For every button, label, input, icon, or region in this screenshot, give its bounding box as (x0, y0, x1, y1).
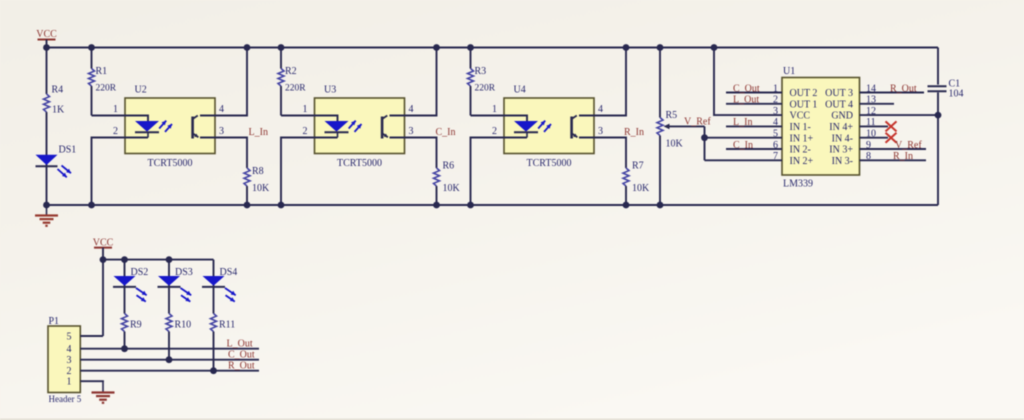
svg-text:1: 1 (113, 104, 118, 115)
svg-text:1: 1 (773, 83, 778, 94)
svg-text:1: 1 (492, 104, 497, 115)
svg-text:10K: 10K (443, 183, 461, 194)
svg-text:IN 2-: IN 2- (790, 145, 811, 156)
svg-text:DS3: DS3 (175, 267, 193, 278)
svg-text:R6: R6 (443, 160, 455, 171)
svg-text:IN 1+: IN 1+ (790, 133, 814, 144)
svg-text:OUT 3: OUT 3 (825, 88, 853, 99)
svg-text:8: 8 (866, 151, 871, 162)
svg-text:R10: R10 (175, 320, 192, 331)
svg-text:DS4: DS4 (220, 267, 238, 278)
svg-text:2: 2 (492, 126, 497, 137)
svg-text:OUT 2: OUT 2 (790, 88, 818, 99)
svg-text:LM339: LM339 (783, 179, 813, 190)
svg-text:R_Out: R_Out (228, 360, 255, 371)
svg-text:2: 2 (773, 95, 778, 106)
svg-text:IN 3-: IN 3- (832, 156, 853, 167)
svg-text:IN 3+: IN 3+ (829, 145, 853, 156)
svg-text:R3: R3 (475, 66, 487, 77)
svg-text:4: 4 (219, 104, 224, 115)
svg-text:R_Out: R_Out (890, 83, 917, 94)
svg-text:R11: R11 (219, 320, 235, 331)
svg-text:R2: R2 (285, 66, 297, 77)
svg-text:R8: R8 (252, 166, 264, 177)
svg-text:4: 4 (409, 104, 414, 115)
svg-text:TCRT5000: TCRT5000 (148, 158, 193, 169)
svg-text:10: 10 (866, 129, 876, 140)
svg-text:V_Ref: V_Ref (684, 117, 711, 128)
svg-text:1K: 1K (52, 105, 65, 116)
svg-text:104: 104 (949, 89, 964, 100)
svg-text:C_In: C_In (436, 127, 456, 138)
svg-text:V_Ref: V_Ref (895, 140, 922, 151)
svg-text:R5: R5 (666, 110, 678, 121)
svg-text:10K: 10K (666, 139, 684, 150)
svg-text:U4: U4 (514, 85, 526, 96)
svg-text:R_In: R_In (893, 151, 913, 162)
svg-text:R1: R1 (96, 66, 108, 77)
svg-text:12: 12 (866, 106, 876, 117)
svg-text:1: 1 (303, 104, 308, 115)
svg-text:VCC: VCC (790, 111, 811, 122)
svg-text:U3: U3 (324, 85, 336, 96)
svg-text:R7: R7 (632, 160, 644, 171)
svg-text:4: 4 (773, 117, 778, 128)
svg-text:DS2: DS2 (131, 267, 149, 278)
svg-text:7: 7 (773, 151, 778, 162)
svg-text:GND: GND (831, 111, 853, 122)
svg-text:9: 9 (866, 140, 871, 151)
svg-text:R_In: R_In (624, 127, 644, 138)
svg-text:3: 3 (773, 106, 778, 117)
svg-text:OUT 1: OUT 1 (790, 99, 818, 110)
svg-text:3: 3 (409, 126, 414, 137)
svg-text:TCRT5000: TCRT5000 (527, 158, 572, 169)
svg-text:L_Out: L_Out (227, 338, 253, 349)
svg-text:U1: U1 (783, 66, 795, 77)
svg-text:L_In: L_In (733, 117, 752, 128)
svg-text:L_In: L_In (249, 127, 268, 138)
svg-text:14: 14 (866, 83, 876, 94)
svg-text:IN 4+: IN 4+ (829, 122, 853, 133)
svg-text:5: 5 (773, 129, 778, 140)
svg-text:R4: R4 (52, 85, 64, 96)
svg-text:10K: 10K (252, 183, 270, 194)
svg-text:6: 6 (773, 140, 778, 151)
svg-text:R9: R9 (130, 320, 142, 331)
svg-text:3: 3 (219, 126, 224, 137)
svg-text:5: 5 (67, 331, 72, 342)
svg-text:2: 2 (113, 126, 118, 137)
svg-text:11: 11 (866, 117, 876, 128)
svg-text:3: 3 (598, 126, 603, 137)
svg-text:IN 4-: IN 4- (832, 133, 853, 144)
svg-text:13: 13 (866, 95, 876, 106)
svg-text:2: 2 (67, 366, 72, 377)
svg-text:C_In: C_In (733, 140, 753, 151)
svg-text:OUT 4: OUT 4 (825, 99, 853, 110)
svg-text:IN 2+: IN 2+ (790, 156, 814, 167)
svg-text:220R: 220R (285, 84, 306, 94)
svg-text:U2: U2 (135, 85, 147, 96)
svg-text:220R: 220R (475, 84, 496, 94)
svg-text:VCC: VCC (36, 29, 57, 40)
svg-text:220R: 220R (96, 84, 117, 94)
svg-text:3: 3 (67, 355, 72, 366)
svg-text:2: 2 (303, 126, 308, 137)
svg-text:4: 4 (67, 344, 72, 355)
svg-text:L_Out: L_Out (733, 95, 759, 106)
svg-text:4: 4 (598, 104, 603, 115)
svg-text:TCRT5000: TCRT5000 (337, 158, 382, 169)
svg-text:C_Out: C_Out (228, 349, 255, 360)
svg-text:IN 1-: IN 1- (790, 122, 811, 133)
svg-text:P1: P1 (49, 316, 60, 327)
svg-text:C_Out: C_Out (733, 83, 760, 94)
svg-text:Header 5: Header 5 (49, 394, 82, 404)
svg-text:DS1: DS1 (59, 145, 77, 156)
svg-text:10K: 10K (632, 183, 650, 194)
svg-text:1: 1 (67, 377, 72, 388)
